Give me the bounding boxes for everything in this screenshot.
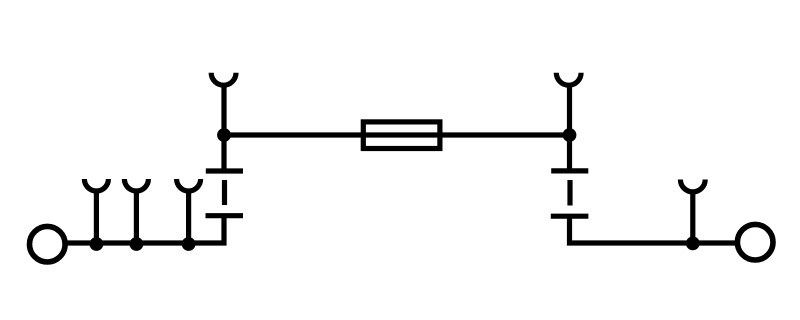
disconnect right top bar (551, 168, 588, 173)
disconnect right bottom bar (551, 214, 589, 219)
clamp contact top-left arc (211, 73, 236, 85)
node junction dot left main (217, 128, 231, 142)
node junction dot right main (563, 128, 577, 142)
clamp contact 1 stem (94, 190, 99, 244)
fuse body (363, 122, 440, 149)
wire bottom-left horizontal with corner up to disconnect (67, 216, 224, 243)
clamp contact 3 stem (186, 190, 191, 244)
node junction dot bottom-right (686, 237, 700, 251)
node junction dot clamp 1 (90, 237, 104, 251)
terminal circle left (30, 226, 66, 262)
clamp contact bottom-right arc (680, 180, 705, 192)
clamp contact 2 stem (134, 190, 139, 244)
wire vertical junction to disconnect right (567, 135, 572, 171)
disconnect left bottom bar (206, 213, 244, 218)
wire main horizontal (224, 132, 570, 137)
clamp contact 2 arc (124, 179, 148, 191)
node junction dot clamp 3 (182, 237, 196, 251)
wire vertical junction to disconnect left (221, 135, 226, 171)
clamp contact bottom-right stem (690, 190, 695, 244)
disconnect right blade dash (567, 180, 572, 206)
wire disconnect right down and bottom-right horizontal (570, 216, 737, 243)
disconnect left top bar (206, 168, 243, 173)
node junction dot clamp 2 (130, 237, 144, 251)
clamp contact 1 arc (84, 179, 108, 191)
disconnect left blade dash (222, 180, 227, 205)
clamp contact top-right stem (567, 84, 572, 135)
terminal circle right (737, 224, 773, 260)
clamp contact top-left stem (221, 84, 226, 135)
clamp contact top-right arc (556, 73, 581, 85)
clamp contact 3 arc (177, 179, 201, 191)
